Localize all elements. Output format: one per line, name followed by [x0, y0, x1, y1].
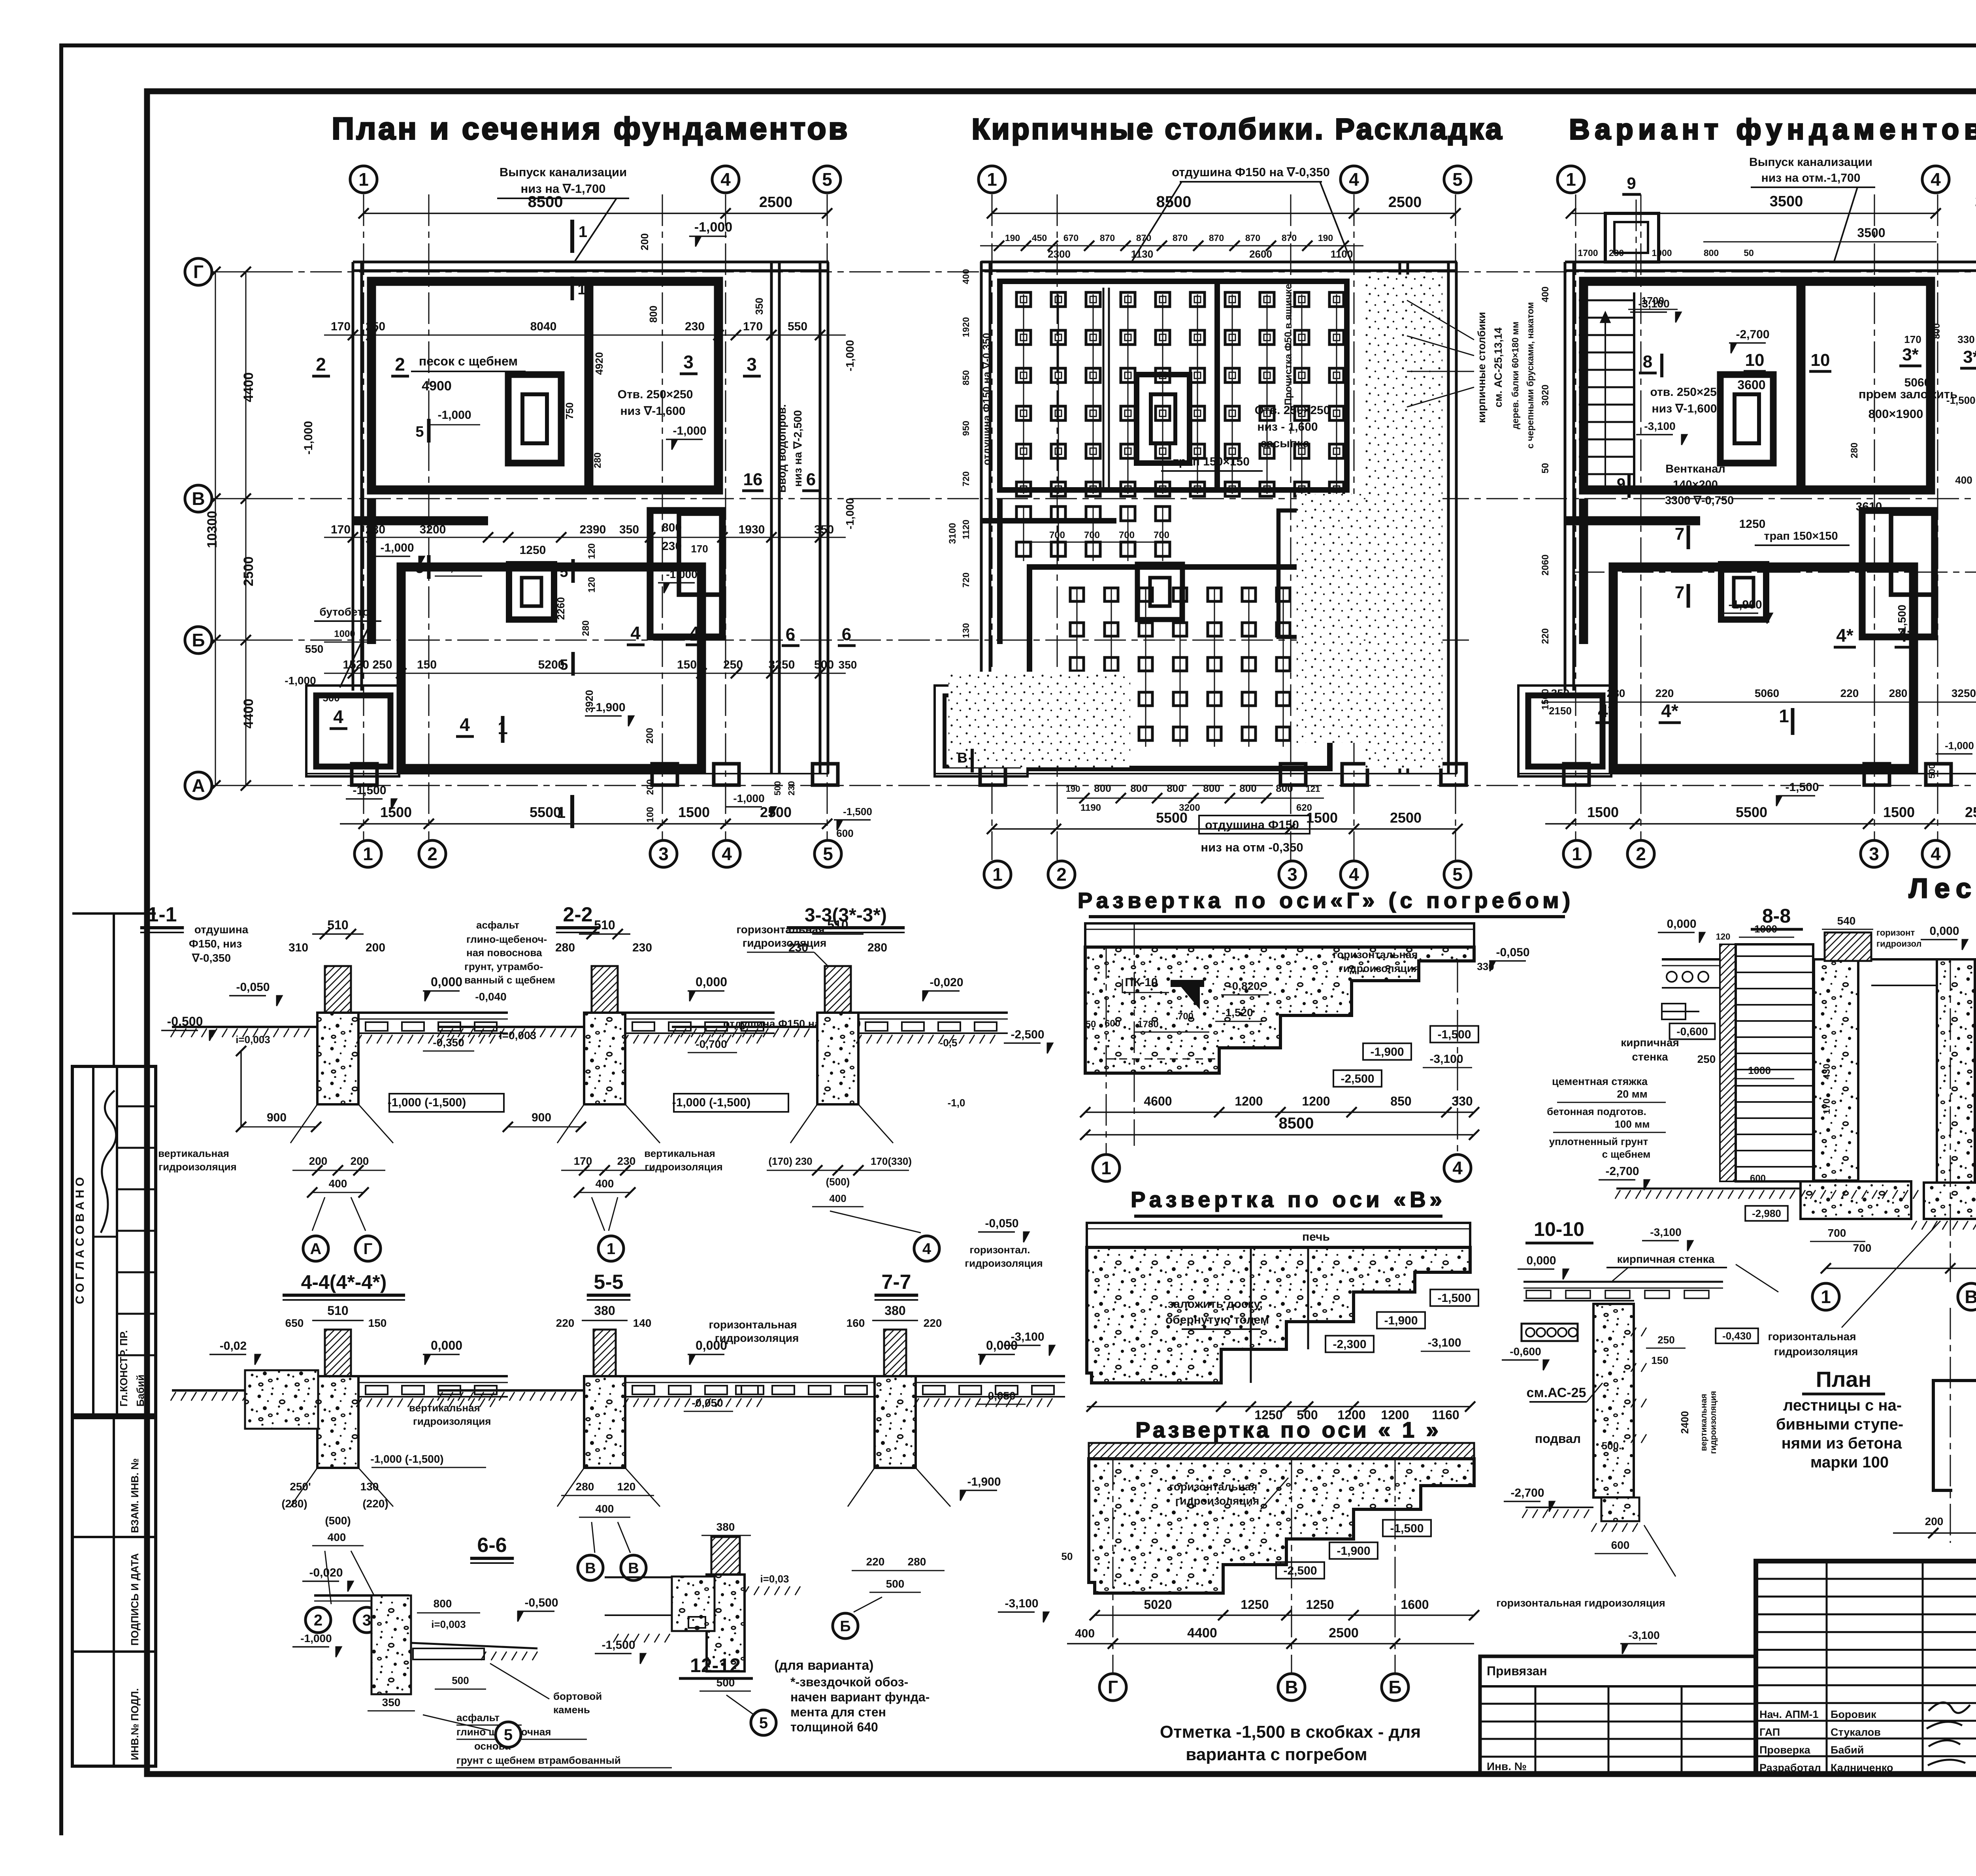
svg-text:песок с щебнем: песок с щебнем [419, 354, 518, 368]
svg-text:230: 230 [617, 1155, 636, 1167]
svg-text:-0,040: -0,040 [475, 991, 506, 1003]
9-9 left concrete column [1937, 959, 1975, 1183]
svg-text:-1,000: -1,000 [694, 220, 732, 235]
E3 body [1089, 1459, 1474, 1593]
svg-text:План и сечения фундаментов: План и сечения фундаментов [332, 111, 850, 146]
upper rooms thick walls [1584, 281, 1931, 490]
svg-text:гидроизоляция: гидроизоляция [1175, 1495, 1260, 1507]
mid-left walls [1565, 516, 1700, 526]
svg-text:-3,100: -3,100 [1644, 420, 1675, 432]
svg-text:-1,520: -1,520 [1222, 1006, 1253, 1019]
hatched brick column [825, 966, 851, 1013]
svg-text:Отв. 250×250: Отв. 250×250 [1255, 404, 1330, 417]
svg-text:350: 350 [382, 1696, 401, 1708]
vertical hydroizol leaders [790, 1104, 817, 1143]
svg-text:280: 280 [1607, 687, 1625, 699]
hatched brick column [325, 966, 351, 1013]
svg-text:5500: 5500 [530, 804, 561, 820]
svg-text:грунт, утрамбо-: грунт, утрамбо- [464, 961, 543, 972]
svg-text:Ф150, низ: Ф150, низ [189, 938, 242, 950]
svg-text:1500: 1500 [678, 804, 710, 820]
svg-text:220: 220 [1840, 687, 1859, 699]
svg-text:6: 6 [842, 625, 851, 644]
svg-text:4900: 4900 [422, 379, 452, 394]
svg-text:150: 150 [677, 658, 697, 671]
svg-text:Стукалов: Стукалов [1831, 1726, 1881, 1738]
svg-text:ванный с щебнем: ванный с щебнем [464, 974, 555, 986]
12-12 left block [672, 1577, 715, 1631]
svg-text:камень: камень [553, 1704, 590, 1716]
svg-text:1500: 1500 [380, 804, 412, 820]
svg-text:Кирпичные столбики. Раскладка: Кирпичные столбики. Раскладка [972, 113, 1504, 145]
svg-text:7-7: 7-7 [881, 1271, 911, 1294]
svg-text:1200: 1200 [1235, 1094, 1263, 1108]
svg-text:трап 150×150: трап 150×150 [1764, 530, 1838, 542]
svg-text:гидроизоляция: гидроизоляция [1339, 962, 1420, 974]
svg-text:800: 800 [1276, 782, 1293, 794]
svg-text:50: 50 [1062, 1550, 1073, 1562]
svg-text:190: 190 [1005, 233, 1020, 243]
svg-text:Г: Г [364, 1240, 373, 1258]
stair plan left wall wing [1933, 1381, 1952, 1490]
foundation pier row on axis A [935, 773, 1457, 774]
svg-text:1000: 1000 [1652, 248, 1672, 258]
stove pier 1 [508, 375, 561, 463]
svg-text:3*: 3* [1963, 347, 1976, 367]
svg-text:1190: 1190 [1080, 802, 1101, 813]
svg-text:100 мм: 100 мм [1614, 1118, 1650, 1130]
svg-text:Г: Г [193, 262, 204, 282]
upper rooms thick walls [371, 281, 718, 490]
signature squiggle [101, 1091, 116, 1233]
svg-text:-1,500: -1,500 [601, 1639, 635, 1652]
svg-text:8500: 8500 [1156, 193, 1192, 211]
svg-text:400: 400 [329, 1177, 347, 1190]
svg-text:510: 510 [594, 918, 615, 932]
svg-text:2: 2 [316, 354, 326, 375]
svg-text:280: 280 [555, 941, 575, 954]
svg-text:3600: 3600 [1737, 378, 1765, 392]
horizontal axis dash-dot lines across plans [212, 271, 1976, 273]
svg-text:800: 800 [662, 521, 682, 534]
top axis circles [350, 166, 377, 193]
plan2 bottom dims [992, 828, 1457, 830]
lower room thick walls [401, 567, 701, 768]
svg-text:-1,500 .: -1,500 . [1946, 394, 1976, 406]
svg-text:бортовой: бортовой [553, 1690, 602, 1702]
svg-text:600: 600 [1611, 1539, 1630, 1551]
svg-text:5: 5 [823, 844, 833, 864]
axis B line (plans 1-2 only) [212, 640, 1470, 641]
floor band right [625, 1011, 775, 1014]
svg-text:кирпичная: кирпичная [1621, 1036, 1679, 1049]
vertical hydroizol leaders [557, 1468, 584, 1507]
svg-text:250': 250' [290, 1480, 311, 1493]
svg-text:Выпуск канализации: Выпуск канализации [500, 165, 627, 179]
svg-text:230: 230 [1609, 248, 1624, 258]
svg-text:*-звездочкой обоз-: *-звездочкой обоз- [790, 1675, 908, 1689]
svg-text:Привязан: Привязан [1487, 1664, 1547, 1678]
svg-text:2-2: 2-2 [563, 903, 592, 926]
svg-text:-1,000: -1,000 [666, 568, 697, 580]
mid-left walls [981, 518, 1116, 524]
svg-text:5500: 5500 [1736, 804, 1767, 820]
svg-text:4400: 4400 [241, 372, 256, 402]
svg-text:-1,000 (-1,500): -1,000 (-1,500) [370, 1453, 443, 1465]
svg-text:проем заложить: проем заложить [1859, 387, 1957, 401]
svg-text:3300 ∇-0,750: 3300 ∇-0,750 [1665, 494, 1734, 507]
svg-text:0,000: 0,000 [1667, 917, 1696, 930]
svg-text:Инв. №: Инв. № [1487, 1760, 1527, 1772]
svg-text:700: 700 [1049, 530, 1065, 541]
concrete footing [584, 1013, 625, 1104]
svg-text:1: 1 [1821, 1286, 1831, 1307]
svg-text:горизонтальная: горизонтальная [736, 923, 824, 936]
plan2 stipple zones [1365, 275, 1442, 768]
svg-text:2: 2 [427, 844, 437, 864]
svg-text:-1,000: -1,000 [439, 561, 473, 574]
9-9 left footing [1924, 1183, 1976, 1219]
svg-text:низ на отм -0,350: низ на отм -0,350 [1201, 840, 1303, 854]
svg-text:700: 700 [1119, 530, 1135, 541]
svg-text:В: В [628, 1560, 639, 1577]
svg-text:гидроизоляция: гидроизоляция [715, 1332, 799, 1344]
svg-text:горизонтальная: горизонтальная [709, 1318, 797, 1331]
plan3 axis 9 and vent shaft [1636, 200, 1637, 279]
svg-text:-0,050: -0,050 [692, 1397, 723, 1409]
svg-text:-1,500: -1,500 [1896, 605, 1908, 636]
svg-text:380: 380 [884, 1303, 905, 1318]
svg-text:см. АС-25,13,14: см. АС-25,13,14 [1492, 328, 1504, 407]
svg-text:280: 280 [1889, 687, 1908, 699]
svg-text:120: 120 [586, 577, 597, 593]
svg-text:вертикальная: вертикальная [1699, 1394, 1708, 1451]
8-8 left incoming floor slab bands [1662, 958, 1720, 961]
svg-text:0,000: 0,000 [431, 1338, 462, 1352]
svg-text:280: 280 [1849, 443, 1860, 458]
svg-text:720: 720 [961, 573, 971, 588]
svg-text:2150: 2150 [1549, 705, 1572, 717]
svg-text:700: 700 [1154, 530, 1169, 541]
svg-text:кирпичные столбики: кирпичные столбики [1476, 312, 1488, 423]
svg-text:2600: 2600 [1249, 248, 1272, 260]
8-8 ladder wall [1736, 944, 1813, 1181]
svg-text:1-1: 1-1 [147, 903, 177, 926]
right strip walls [1399, 262, 1401, 774]
svg-text:550: 550 [305, 643, 324, 655]
svg-text:510: 510 [327, 918, 348, 932]
svg-text:5500: 5500 [1156, 810, 1188, 826]
svg-text:12-12: 12-12 [690, 1654, 741, 1676]
svg-text:1: 1 [987, 169, 997, 190]
outer wall top double line [981, 261, 1457, 264]
Привязан block [1480, 1656, 1756, 1774]
svg-text:2260: 2260 [555, 597, 567, 620]
svg-text:отдушина Ф150: отдушина Ф150 [1205, 818, 1299, 832]
svg-text:7: 7 [1675, 524, 1684, 544]
12-12 brick column [711, 1537, 740, 1575]
left concrete block 4-4 [245, 1370, 318, 1429]
10-10 wall column [1593, 1304, 1634, 1497]
svg-text:10-10: 10-10 [1534, 1218, 1584, 1240]
svg-text:горизонт: горизонт [1876, 928, 1915, 938]
E1 cap band [1085, 923, 1474, 947]
svg-text:-0,02: -0,02 [220, 1339, 247, 1352]
svg-text:2300: 2300 [1048, 248, 1071, 260]
svg-text:4: 4 [1349, 169, 1359, 190]
svg-text:800: 800 [647, 305, 659, 322]
svg-text:1: 1 [579, 223, 587, 241]
svg-text:с черепными брусками, накатом: с черепными брусками, накатом [1525, 302, 1535, 448]
svg-text:В: В [192, 488, 205, 509]
bottom axis circles [354, 840, 381, 867]
svg-text:3250: 3250 [769, 658, 795, 671]
svg-text:600: 600 [1105, 1018, 1120, 1029]
svg-text:800: 800 [1239, 782, 1256, 794]
svg-text:1: 1 [992, 864, 1003, 885]
svg-text:50: 50 [1540, 463, 1551, 474]
svg-text:1: 1 [1101, 1158, 1111, 1178]
svg-text:800: 800 [1203, 782, 1220, 794]
svg-text:-3,100: -3,100 [1427, 1336, 1461, 1349]
svg-text:-1,900: -1,900 [1337, 1544, 1370, 1558]
12-12 concrete [707, 1575, 745, 1671]
svg-text:Развертка по оси «В»: Развертка по оси «В» [1131, 1187, 1446, 1212]
svg-text:120: 120 [1716, 932, 1731, 942]
svg-text:грунт с щебнем втрамбованный: грунт с щебнем втрамбованный [456, 1754, 621, 1766]
svg-text:50: 50 [1744, 248, 1754, 258]
svg-text:горизонтал.: горизонтал. [969, 1244, 1030, 1256]
stove pier 1 [1720, 375, 1773, 463]
svg-text:-0,500: -0,500 [524, 1596, 558, 1609]
svg-text:220: 220 [866, 1556, 885, 1568]
svg-text:250: 250 [723, 658, 743, 671]
svg-text:(500): (500) [325, 1514, 351, 1527]
svg-text:-0,350: -0,350 [433, 1036, 464, 1049]
ground line left [172, 1026, 317, 1028]
svg-text:1: 1 [1572, 844, 1582, 864]
floor band right [358, 1011, 508, 1014]
svg-text:-1,000: -1,000 [1945, 740, 1974, 752]
svg-text:220: 220 [1655, 687, 1674, 699]
svg-text:2390: 2390 [580, 523, 606, 536]
svg-text:Боровик: Боровик [1831, 1708, 1876, 1720]
svg-text:заложить доску,: заложить доску, [1168, 1298, 1263, 1311]
svg-text:280: 280 [908, 1556, 926, 1568]
svg-text:глино-щебеноч-: глино-щебеноч- [466, 933, 547, 945]
9-9 axis circles [1812, 1283, 1839, 1310]
svg-text:200: 200 [639, 233, 650, 250]
svg-text:1700: 1700 [1578, 248, 1598, 258]
svg-text:500: 500 [322, 692, 339, 704]
svg-text:отдушина Ф150 на ∇-0,350: отдушина Ф150 на ∇-0,350 [1172, 165, 1330, 179]
hatched brick column [592, 966, 618, 1013]
svg-text:330: 330 [1957, 333, 1974, 345]
svg-text:Нач. АПМ-1: Нач. АПМ-1 [1759, 1708, 1819, 1720]
svg-text:2: 2 [395, 354, 405, 375]
svg-text:0,000: 0,000 [696, 975, 727, 989]
svg-text:800: 800 [1094, 782, 1111, 794]
middle dim row [324, 537, 846, 538]
svg-text:А: А [310, 1240, 322, 1258]
svg-text:2500: 2500 [760, 804, 792, 820]
svg-text:i=0,003: i=0,003 [431, 1618, 466, 1630]
svg-text:5: 5 [415, 424, 424, 440]
hatched brick column [884, 1330, 906, 1376]
svg-text:400: 400 [1540, 286, 1551, 302]
svg-text:-1,000: -1,000 [733, 792, 764, 804]
svg-text:400: 400 [829, 1192, 846, 1204]
svg-text:-1,500: -1,500 [353, 784, 386, 797]
svg-text:170: 170 [574, 1155, 592, 1167]
svg-text:20 мм: 20 мм [1617, 1088, 1647, 1100]
svg-text:121: 121 [1306, 784, 1320, 794]
svg-text:2500: 2500 [1390, 810, 1422, 826]
svg-text:Б: Б [192, 630, 205, 650]
svg-text:5020: 5020 [1144, 1597, 1172, 1612]
bottom axis circles [984, 861, 1011, 888]
plan3 lower dim row [1541, 702, 1976, 703]
svg-text:Разработал: Разработал [1759, 1762, 1821, 1774]
svg-text:-2,500: -2,500 [1011, 1028, 1044, 1041]
svg-text:6-6: 6-6 [477, 1534, 507, 1557]
outer wall left double line [980, 262, 983, 691]
svg-text:850: 850 [961, 370, 971, 385]
svg-text:2060: 2060 [1540, 554, 1551, 575]
svg-text:ВЗАМ. ИНВ. №: ВЗАМ. ИНВ. № [129, 1458, 141, 1533]
svg-text:Выпуск канализации: Выпуск канализации [1749, 156, 1872, 169]
plan1 bottom dimension row [340, 823, 827, 825]
svg-text:кирпичная стенка: кирпичная стенка [1617, 1253, 1715, 1265]
svg-text:0,000: 0,000 [1929, 925, 1959, 938]
svg-text:бутобетон: бутобетон [319, 606, 376, 618]
svg-text:-1,500: -1,500 [1437, 1292, 1471, 1305]
svg-text:870: 870 [1100, 233, 1115, 243]
svg-text:горизонтальная: горизонтальная [1169, 1480, 1257, 1493]
floor band right [358, 1375, 508, 1377]
E2 body [1087, 1247, 1470, 1383]
svg-text:гидроизоляция: гидроизоляция [1709, 1391, 1718, 1454]
svg-text:Отметка -1,500 в скобках - для: Отметка -1,500 в скобках - для [1160, 1722, 1421, 1742]
floor band right [625, 1375, 775, 1377]
svg-text:900: 900 [532, 1111, 551, 1124]
svg-text:вертикальная: вертикальная [644, 1147, 715, 1159]
floor band right [916, 1375, 1065, 1377]
svg-text:1250: 1250 [1739, 518, 1766, 531]
svg-text:230: 230 [788, 941, 808, 954]
svg-text:i=0,003: i=0,003 [236, 1034, 270, 1045]
svg-text:5: 5 [504, 1726, 513, 1744]
svg-text:-2,700: -2,700 [1736, 328, 1769, 341]
svg-text:горизонтальная: горизонтальная [1768, 1330, 1856, 1343]
vertical hydroizol leaders [290, 1104, 317, 1143]
svg-text:4*: 4* [1598, 701, 1615, 721]
svg-text:400: 400 [596, 1503, 614, 1515]
svg-text:8500: 8500 [1279, 1115, 1314, 1132]
svg-text:-1,0: -1,0 [948, 1097, 965, 1109]
svg-text:-1,000: -1,000 [844, 498, 856, 529]
svg-text:ИНВ.№ ПОДЛ.: ИНВ.№ ПОДЛ. [129, 1688, 141, 1760]
svg-text:140×200: 140×200 [1673, 478, 1718, 491]
svg-text:8500: 8500 [528, 193, 563, 211]
svg-text:1000: 1000 [334, 629, 355, 639]
concrete footing [317, 1013, 358, 1104]
svg-text:1: 1 [607, 1240, 615, 1258]
svg-text:3200: 3200 [420, 523, 446, 536]
svg-text:варианта с погребом: варианта с погребом [1186, 1745, 1367, 1764]
svg-text:В: В [957, 750, 967, 766]
svg-text:(170) 230: (170) 230 [768, 1155, 812, 1167]
stove pier 1 [1137, 375, 1190, 463]
svg-text:ная повоснова: ная повоснова [466, 947, 542, 959]
svg-text:2500: 2500 [1965, 804, 1976, 820]
svg-text:7: 7 [1675, 583, 1684, 602]
plan2 bottom fine dims [1067, 798, 1324, 799]
E3 hatch cap [1089, 1443, 1474, 1459]
svg-text:4: 4 [460, 714, 470, 735]
E1 PK-10 lintel glyph [1171, 980, 1204, 987]
svg-text:отдушина Ф150 на ∇-0,350: отдушина Ф150 на ∇-0,350 [980, 333, 992, 465]
svg-text:800×1900: 800×1900 [1869, 407, 1923, 421]
svg-text:170: 170 [331, 523, 351, 536]
svg-text:5-5: 5-5 [594, 1271, 623, 1294]
outer wall left double line [1564, 262, 1567, 691]
svg-text:230: 230 [366, 523, 385, 536]
svg-text:190: 190 [1318, 233, 1333, 243]
svg-text:8: 8 [1643, 352, 1652, 371]
vertical axis dash-dot lines [1575, 194, 1576, 840]
svg-text:400: 400 [328, 1531, 346, 1543]
svg-text:План: План [1816, 1367, 1872, 1392]
plan2 upper pier grid [1023, 294, 1024, 494]
svg-text:Проверка: Проверка [1759, 1744, 1811, 1756]
svg-text:-1,000: -1,000 [844, 340, 856, 371]
svg-text:550: 550 [788, 320, 807, 333]
svg-text:засыпка: засыпка [1261, 437, 1310, 450]
svg-text:Бабий: Бабий [1831, 1744, 1864, 1756]
svg-text:350: 350 [814, 523, 834, 536]
svg-text:1250: 1250 [520, 544, 546, 557]
svg-text:3: 3 [747, 354, 757, 375]
svg-text:150: 150 [1651, 1354, 1668, 1366]
svg-text:4: 4 [1349, 864, 1359, 885]
left axis circles and rows [185, 258, 212, 285]
svg-text:2400: 2400 [1679, 1411, 1691, 1434]
svg-text:1500: 1500 [1883, 804, 1915, 820]
plan3 stair treads upper-left room [1579, 299, 1634, 301]
plan2 top dimension 8500/2500 [992, 213, 1456, 214]
svg-text:600: 600 [1750, 1173, 1766, 1184]
svg-text:Г: Г [1108, 1677, 1118, 1697]
9-9 left hatch block above floor [1825, 932, 1871, 961]
ground line left [439, 1389, 584, 1392]
concrete footing [875, 1376, 916, 1468]
svg-text:-0,700: -0,700 [696, 1038, 727, 1050]
plan3 top dims [1571, 213, 1936, 214]
svg-text:1: 1 [1566, 169, 1576, 190]
ground line left [172, 1389, 317, 1392]
svg-text:-0,820: -0,820 [1228, 980, 1260, 992]
svg-text:330: 330 [1477, 961, 1494, 972]
svg-text:1000: 1000 [1748, 1064, 1771, 1076]
svg-text:начен вариант фунда-: начен вариант фунда- [790, 1690, 930, 1704]
svg-text:асфальт: асфальт [476, 919, 519, 931]
concrete footing [584, 1376, 625, 1468]
left dimension column [212, 271, 269, 273]
10-10 floor bands [1523, 1281, 1723, 1283]
svg-text:(220): (220) [362, 1497, 388, 1510]
svg-text:гидроизоляция: гидроизоляция [1774, 1345, 1858, 1358]
